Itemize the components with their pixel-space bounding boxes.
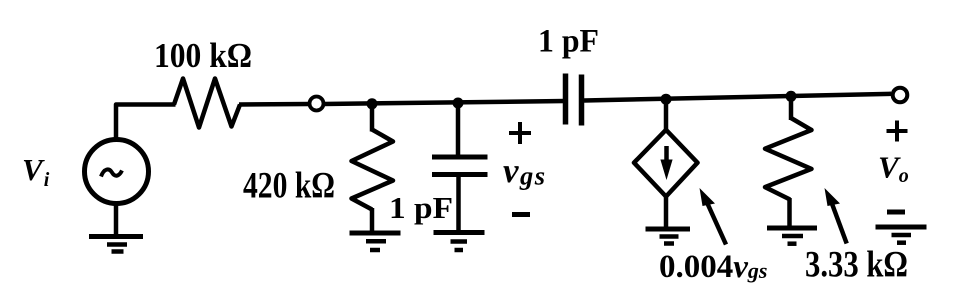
junction dot D: [786, 91, 797, 102]
wire shunt capacitor to ground: [456, 176, 461, 231]
plus sign Vo: [887, 121, 908, 142]
capacitor 1 pF shunt: [432, 157, 488, 175]
junction dot A: [367, 98, 378, 109]
svg-text:3.33 kΩ: 3.33 kΩ: [805, 245, 908, 286]
svg-text:100 kΩ: 100 kΩ: [154, 36, 252, 75]
minus sign vgs: [512, 212, 530, 217]
junction dot B: [453, 98, 464, 109]
wire resistor to input node: [239, 102, 310, 107]
resistor 420 kOhm: [352, 130, 394, 210]
annotation arrow to 3.33k resistor: [825, 188, 847, 244]
svg-text:Vi: Vi: [22, 152, 50, 191]
wire source bottom to ground: [114, 203, 119, 236]
ground under source: [89, 237, 143, 252]
plus sign vgs: [509, 122, 531, 144]
voltage source Vi circle: [85, 140, 149, 204]
dependent current source 0.004vgs diamond: [634, 130, 698, 197]
wire dot C to dependent source: [664, 99, 669, 131]
ground under 3.33k resistor: [767, 228, 817, 244]
capacitor 1 pF series: [566, 74, 582, 126]
ground under shunt capacitor: [434, 233, 485, 251]
wire dot A to 420k resistor: [370, 104, 375, 132]
svg-text:420 kΩ: 420 kΩ: [243, 166, 335, 207]
wire 3.33k resistor to ground: [787, 198, 792, 226]
node output open terminal: [893, 88, 908, 103]
wire dependent source to ground: [664, 197, 669, 228]
wire series capacitor to output node: [584, 94, 891, 101]
dependent source arrow: [660, 146, 672, 180]
junction dot C: [661, 94, 672, 105]
wire from source top to resistor: [116, 105, 176, 140]
svg-text:0.004vgs: 0.004vgs: [659, 249, 767, 285]
wire input node to series capacitor: [324, 101, 566, 104]
annotation arrow to dependent source: [700, 188, 727, 245]
ground at Vo reference: [876, 227, 927, 243]
node input open terminal: [310, 97, 324, 111]
svg-text:Vo: Vo: [878, 150, 909, 188]
ground under dependent source: [646, 229, 691, 244]
minus sign at Vo ground: [887, 210, 905, 215]
wire dot D to 3.33k resistor: [789, 96, 794, 120]
resistor 3.33 kOhm: [765, 118, 812, 200]
ground under 420k resistor: [350, 233, 401, 250]
resistor 100 kOhm: [174, 79, 240, 128]
wire 420k resistor to ground: [370, 208, 375, 232]
wire dot B to shunt capacitor: [456, 103, 461, 155]
voltage source tilde: [101, 169, 122, 176]
svg-text:1 pF: 1 pF: [389, 190, 453, 225]
svg-text:1 pF: 1 pF: [538, 24, 599, 60]
svg-text:vgs: vgs: [503, 151, 547, 191]
